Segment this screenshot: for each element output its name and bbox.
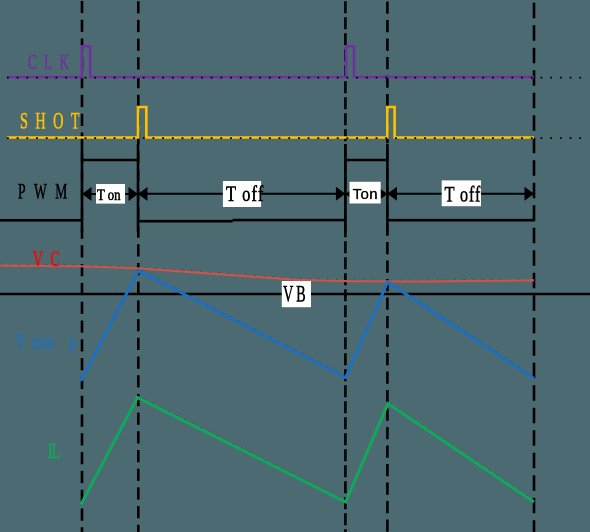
svg-text:T off: T off [445, 183, 482, 207]
svg-text:SHOT: SHOT [20, 109, 87, 134]
svg-text:VC: VC [33, 247, 67, 271]
svg-text:CLK: CLK [28, 50, 76, 74]
svg-text:T off: T off [226, 183, 264, 207]
svg-text:PWM: PWM [18, 179, 76, 203]
svg-text:T on: T on [97, 187, 121, 205]
svg-text:VB: VB [283, 282, 308, 307]
svg-text:Ton: Ton [353, 186, 378, 203]
svg-text:IL: IL [48, 439, 60, 462]
